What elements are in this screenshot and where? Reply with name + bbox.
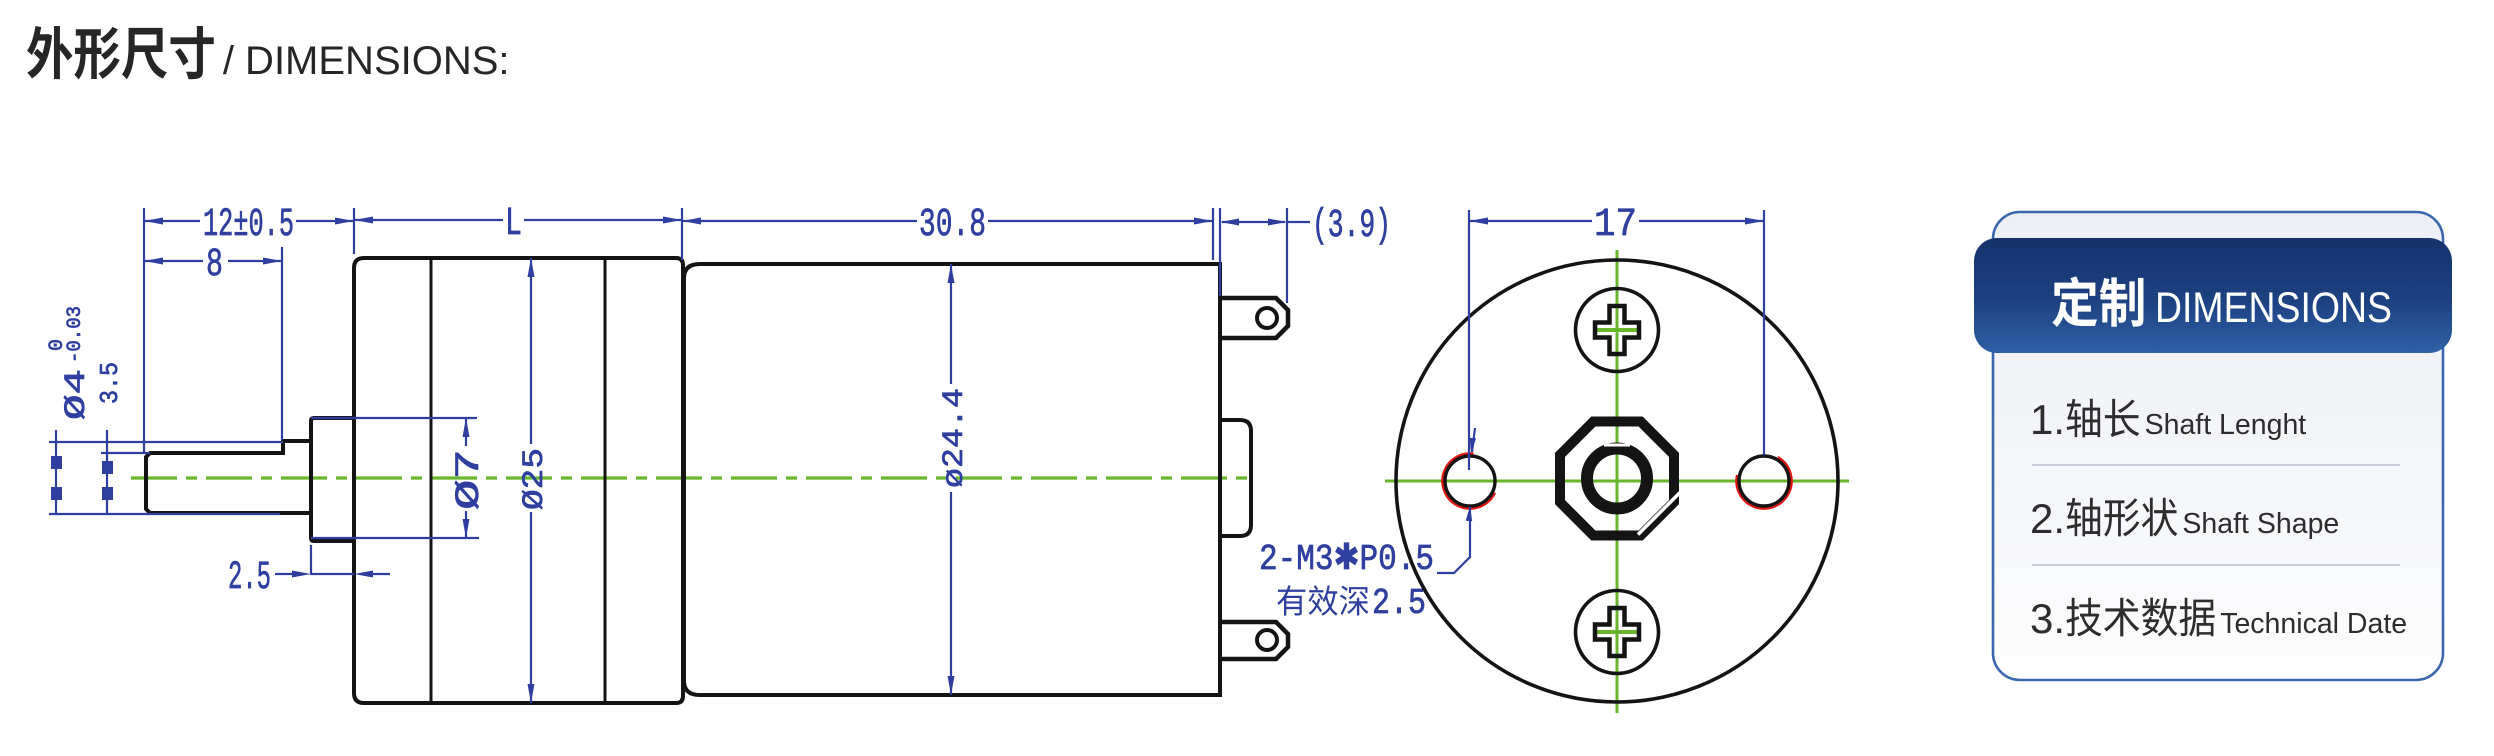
- svg-text:Shaft Lenght: Shaft Lenght: [2145, 409, 2307, 441]
- svg-text:2.5: 2.5: [228, 556, 271, 601]
- dimension 30.8: [1212, 208, 1214, 260]
- info card header: [1974, 238, 2452, 353]
- svg-text:8: 8: [206, 243, 223, 288]
- brush cap bump: [1220, 420, 1251, 536]
- svg-text:Shaft Shape: Shaft Shape: [2182, 508, 2339, 540]
- svg-text:Ø4: Ø4: [60, 369, 94, 420]
- screw at y=632: [1576, 591, 1659, 674]
- svg-text:(3.9): (3.9): [1312, 204, 1391, 249]
- svg-text:2-M3✱P0.5: 2-M3✱P0.5: [1259, 539, 1434, 580]
- gearbox housing: [354, 258, 683, 703]
- svg-text:3.: 3.: [2030, 595, 2065, 642]
- screw at y=330: [1576, 289, 1659, 372]
- gearbox section line 2: [604, 258, 607, 703]
- center line (side view): [131, 476, 1256, 479]
- front view crosshair vertical: [1616, 250, 1619, 713]
- dimension Ø7: [311, 417, 477, 419]
- svg-text:0: 0: [46, 339, 69, 351]
- svg-text:2.: 2.: [2030, 495, 2065, 542]
- dimension ø24.4: [950, 264, 952, 384]
- dimension 17: [1468, 210, 1470, 470]
- output hub: [311, 418, 354, 541]
- boss chamfer highlight: [1638, 493, 1680, 535]
- dimension 8: [281, 247, 283, 440]
- terminal hole bottom: [1257, 630, 1277, 650]
- svg-text:Technical Date: Technical Date: [2220, 608, 2407, 640]
- note 有效深2.5: [1277, 585, 1368, 615]
- separator 1: [2032, 464, 2400, 466]
- svg-text:L: L: [505, 202, 522, 247]
- terminal hole top: [1257, 308, 1277, 328]
- center boss outer ring: [1560, 422, 1674, 536]
- svg-text:30.8: 30.8: [919, 203, 986, 248]
- svg-text:3.5: 3.5: [95, 362, 125, 404]
- svg-text:DIMENSIONS: DIMENSIONS: [2155, 284, 2392, 332]
- dimension L: [353, 208, 355, 254]
- front view crosshair horizontal: [1385, 480, 1849, 483]
- terminal tab top: [1220, 298, 1288, 338]
- output shaft: [146, 441, 311, 513]
- dimension Ø4 0/-0.03: [49, 441, 283, 443]
- dimension 12±0.5: [143, 208, 145, 452]
- separator 2: [2032, 564, 2400, 566]
- gearbox section line 1: [430, 258, 433, 703]
- svg-text:17: 17: [1594, 203, 1637, 248]
- svg-text:Ø7: Ø7: [451, 449, 489, 510]
- svg-text:1.: 1.: [2030, 396, 2065, 443]
- svg-text:ø24.4: ø24.4: [938, 388, 972, 488]
- shaft hole ring: [1587, 449, 1647, 509]
- dimension 2.5: [310, 545, 312, 575]
- leader to M3 hole: [1472, 428, 1475, 452]
- svg-text:/ DIMENSIONS:: / DIMENSIONS:: [223, 39, 510, 83]
- header 定制: [2052, 276, 2143, 326]
- mounting hole at x=1764: [1728, 445, 1800, 517]
- mounting hole at x=1470: [1435, 446, 1505, 516]
- svg-text:Ø25: Ø25: [518, 448, 552, 510]
- motor body: [684, 264, 1220, 695]
- svg-text:-0.03: -0.03: [64, 306, 87, 363]
- dimension (3.9): [1219, 208, 1221, 296]
- svg-text:2.5: 2.5: [1372, 583, 1426, 624]
- title 外形尺寸: [27, 26, 214, 80]
- terminal tab bottom: [1220, 622, 1288, 659]
- dimension Ø25: [530, 258, 532, 444]
- dimension 3.5: [101, 452, 150, 454]
- svg-text:12±0.5: 12±0.5: [203, 203, 294, 248]
- gearbox face circle: [1396, 260, 1838, 702]
